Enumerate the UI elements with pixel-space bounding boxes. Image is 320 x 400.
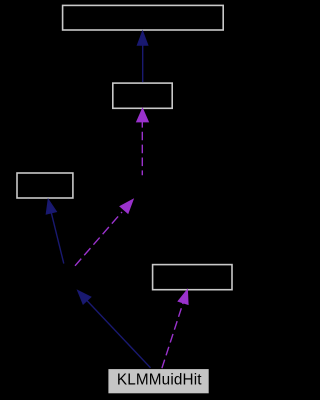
class node box (top, base class) (63, 5, 224, 30)
usage arrow: hidden node to hidden node (dashed purple, diagonal) (75, 199, 133, 265)
class node box (right, fourth level) (153, 265, 232, 290)
svg-text:KLMMuidHit: KLMMuidHit (117, 372, 202, 389)
usage arrow: hidden node to second box (dashed purple, vertical) (137, 108, 149, 175)
inheritance arrow: second box to top box (solid blue) (137, 31, 148, 82)
usage arrow: KLMMuidHit to right box (dashed purple) (162, 290, 188, 369)
inheritance arrow: hidden node to left box (solid blue) (46, 199, 64, 263)
class node box (second level) (113, 83, 172, 108)
inheritance arrow: KLMMuidHit to hidden node (solid blue) (78, 290, 151, 368)
class node box (left, third level) (17, 173, 73, 198)
current class node KLMMuidHit (grey filled) (108, 369, 208, 393)
